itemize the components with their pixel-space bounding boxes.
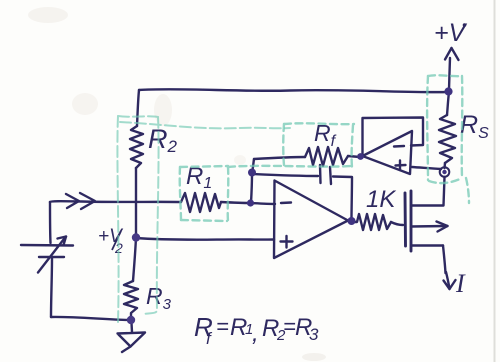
transistor Q1 MOSFET (405, 191, 448, 251)
wire RS bottom lead (443, 163, 446, 168)
wire source down with current arrow (443, 246, 456, 290)
label I (455, 269, 466, 298)
wire left branch vertical lower (51, 258, 52, 317)
highlight Rf box bottom run to R1 box (228, 166, 352, 167)
wire op-amp output stub (348, 221, 353, 222)
highlight RS box bottom edge (429, 178, 462, 183)
wire node link vertical (251, 173, 252, 203)
op-amp U2 buffer (363, 131, 413, 174)
svg-text:1K: 1K (366, 186, 396, 213)
highlight Rf box right edge (352, 125, 353, 167)
highlight long horizontal run (120, 122, 290, 128)
node output junction (348, 217, 356, 225)
label 1K (366, 186, 396, 213)
wire drain up to sense node (444, 177, 445, 206)
wire sense node to buffer plus input (412, 167, 441, 169)
svg-text:+V: +V (434, 19, 468, 47)
wire bottom return (51, 317, 129, 320)
highlight RS box bottom tail (466, 178, 469, 203)
label +V/2 (98, 226, 124, 256)
wire RS top lead (447, 92, 449, 115)
node inverting junction (247, 199, 254, 206)
highlight Rf box left edge (282, 124, 285, 165)
wire inverting node to op-amp minus input (250, 203, 275, 204)
wire +V/2 node down to R3 (133, 237, 136, 281)
ground (118, 323, 146, 352)
node +V/2 junction (132, 233, 140, 241)
wire left branch vertical upper (49, 202, 52, 243)
resistor R2 (130, 126, 143, 168)
highlight R1 box right edge (227, 167, 230, 221)
wire Rf right lead (348, 156, 360, 157)
node ground junction (127, 316, 135, 324)
label +V (434, 19, 468, 47)
highlight left box right edge (143, 117, 159, 314)
equation Rf = R1 , R2 = R3 (194, 312, 319, 348)
wire top rail (139, 89, 448, 92)
resistor Rf (305, 147, 348, 166)
power +V arrow (445, 48, 459, 90)
highlight R1 box bottom edge (181, 220, 227, 221)
wire R1 to inverting node (221, 202, 250, 203)
resistor R1 (181, 193, 221, 212)
capacitor C1 (320, 165, 331, 184)
node buffer output junction (357, 153, 364, 160)
wire top-left corner down to R2 (137, 90, 139, 126)
node sense junction circled (440, 167, 450, 177)
node feedback junction (248, 169, 256, 177)
highlight RS box left edge (426, 76, 429, 180)
current source CS1 (21, 237, 73, 273)
svg-text:=: = (216, 314, 229, 339)
highlight left box left edge (117, 116, 118, 322)
svg-text:I: I (455, 269, 466, 298)
wire buffer feedback loop (363, 118, 424, 156)
wire +V/2 node to op-amp plus input (136, 238, 274, 240)
highlight Rf box top (284, 122, 354, 125)
arrow chevrons on wire (66, 193, 95, 209)
wire capacitor right lead to output (333, 177, 352, 220)
resistor R3 (124, 281, 138, 319)
op-amp U1 (274, 181, 348, 259)
wire R2 bottom to +V/2 node (135, 168, 137, 237)
resistor RS (439, 115, 456, 163)
label Rf (314, 120, 337, 150)
resistor R4 1K (353, 214, 391, 230)
wire stub up to Rf lead (252, 159, 254, 173)
svg-text:3: 3 (309, 325, 319, 344)
label R1 (186, 163, 212, 192)
label R3 (146, 283, 172, 313)
highlight left box top edge (118, 116, 158, 117)
label R2 (148, 124, 178, 156)
highlight RS box right edge (461, 76, 464, 177)
wire capacitor left lead (253, 174, 318, 176)
svg-text:,: , (252, 320, 259, 347)
wire Rf left lead (254, 157, 305, 159)
label RS (460, 111, 489, 142)
highlight RS box top edge (428, 74, 462, 77)
highlight R1 box top edge (180, 166, 228, 167)
wire current arrow row (50, 200, 181, 203)
highlight R1 box left edge (180, 167, 181, 221)
node top rail junction (444, 87, 452, 95)
wire 1K to gate (391, 222, 403, 225)
